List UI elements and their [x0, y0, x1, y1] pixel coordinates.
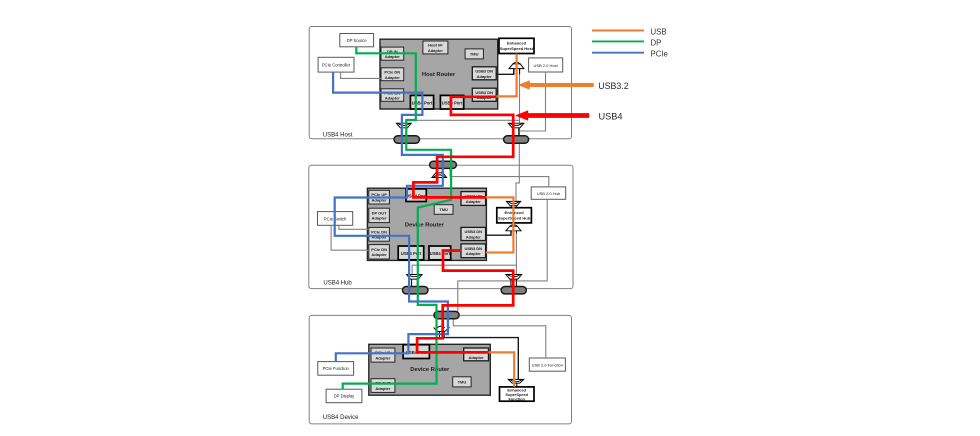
svg-text:USB3 DN: USB3 DN — [475, 90, 493, 95]
svg-text:USB3.2: USB3.2 — [598, 81, 628, 91]
wire PCIe switch stub 2 — [331, 225, 369, 250]
svg-text:Adapter: Adapter — [466, 251, 482, 256]
svg-text:DP: DP — [651, 38, 662, 47]
svg-text:USB4 Hub: USB4 Hub — [323, 280, 352, 286]
USB4 Host enclosure box — [309, 27, 571, 139]
wire device capsule to USB 2.0 function — [453, 319, 546, 358]
host router U1 — [380, 39, 498, 109]
PCIe DN adapter 2 (hub) — [369, 245, 390, 259]
connector funnel under ESS host — [509, 62, 524, 74]
USB 2.0 function box — [529, 358, 565, 371]
svg-text:USB4 Port: USB4 Port — [430, 251, 451, 256]
USB3.2 big arrow — [519, 81, 629, 91]
svg-text:DP Source: DP Source — [347, 38, 368, 43]
DP OUT adapter (device) — [371, 379, 395, 393]
PCIe function box — [318, 362, 354, 376]
svg-text:PCIe: PCIe — [651, 50, 668, 59]
USB 2.0 host box — [529, 58, 563, 72]
svg-text:Adapter: Adapter — [375, 355, 391, 360]
legend DP line — [592, 38, 661, 47]
svg-text:PCIe Function: PCIe Function — [323, 366, 350, 371]
svg-text:Device Router: Device Router — [405, 222, 445, 228]
svg-text:DP OUT: DP OUT — [372, 210, 388, 215]
connector funnel device top — [434, 326, 450, 337]
svg-text:Adapter: Adapter — [428, 48, 444, 53]
device router U2 (hub) — [367, 188, 486, 260]
wire hub capsule to USB 2.0 hub — [450, 168, 549, 187]
PCIe switch box — [318, 212, 353, 226]
USB4 port up (hub top) — [406, 189, 427, 202]
connector funnel host port 1 — [396, 123, 411, 136]
USB4 port dn2 (hub bottom) — [429, 246, 451, 260]
enhanced superspeed function box — [500, 387, 535, 402]
connector funnel above ESS hub — [506, 201, 520, 207]
USB4 port 1 (host) — [410, 95, 433, 109]
svg-text:Adapter: Adapter — [469, 355, 485, 360]
wire DP (green) DP source to hub to DP display — [343, 47, 451, 389]
wire hub USB2 branch to left port funnel — [412, 265, 516, 274]
USB3 DN adapter 2 — [472, 88, 496, 101]
enhanced superspeed hub box — [497, 208, 532, 223]
wire USB3 (orange) ESS host to USB3 DN adapter — [496, 54, 516, 97]
wire device funnel to ESS function funnel — [444, 332, 518, 380]
DP IN adapter — [381, 47, 404, 60]
svg-text:USB3 DN: USB3 DN — [475, 69, 493, 74]
legend USB line — [592, 27, 667, 36]
svg-text:Adapter: Adapter — [385, 54, 401, 59]
svg-text:Function: Function — [508, 397, 525, 402]
wire USB4 (red) host port 2 to hub — [413, 97, 513, 198]
wire USB 2.0 hub to device capsule — [458, 199, 547, 311]
cable plug hub top — [430, 161, 457, 168]
PCIe DN adapter 1 — [381, 68, 404, 81]
connector funnel hub bottom port 1 — [407, 275, 423, 287]
cable plug hub bottom port 1 — [403, 287, 429, 294]
svg-text:USB3 DN: USB3 DN — [465, 246, 483, 251]
svg-text:Adapter: Adapter — [466, 199, 482, 204]
PCIe DN adapter 1 (hub) — [369, 227, 390, 241]
DP source box — [340, 34, 374, 47]
USB 2.0 hub box — [531, 187, 566, 199]
svg-text:USB 2.0 Hub: USB 2.0 Hub — [537, 191, 561, 196]
svg-text:Enhanced: Enhanced — [507, 41, 527, 46]
PCIe controller box — [318, 57, 354, 72]
USB4 port (device) — [403, 345, 429, 359]
wire USB4 (red) hub to device — [417, 251, 513, 353]
svg-text:TMU: TMU — [439, 207, 448, 212]
USB3 UP adapter (device) — [464, 348, 489, 361]
PCIe UP adapter (device) — [371, 348, 395, 362]
connector funnel hub bottom port 2 — [506, 275, 522, 287]
wire USB3 (orange) device USB3 UP to ESS function — [489, 352, 515, 386]
USB4 port 2 (host) — [440, 95, 463, 109]
wire USB 2.0 host down-left — [520, 72, 546, 131]
wire PCIe switch stub 1 — [339, 225, 369, 229]
svg-text:PCIe Controller: PCIe Controller — [322, 62, 351, 67]
USB3 DN adapter mid (hub) — [461, 227, 486, 240]
wire USB3 (orange) hub USB3 UP to USB3 DN — [486, 197, 514, 252]
wire USB2 branch to left port funnel — [406, 120, 520, 136]
svg-text:Adapter: Adapter — [385, 96, 401, 101]
svg-text:Adapter: Adapter — [372, 216, 388, 221]
svg-text:Adapter: Adapter — [477, 74, 493, 79]
USB4 big arrow — [516, 111, 623, 122]
wire USB3 DN adapter to ESS hub funnel — [486, 231, 511, 235]
wire USB3 DN adapter to ESS host funnel — [496, 69, 514, 75]
svg-text:TMU: TMU — [458, 380, 467, 385]
PCIe DN adapter 2 — [381, 89, 404, 102]
svg-text:USB4 Port: USB4 Port — [442, 101, 463, 106]
connector funnel above ESS function — [508, 379, 523, 387]
USB3 UP adapter (hub) — [461, 192, 486, 206]
svg-text:Adapter: Adapter — [372, 252, 388, 257]
svg-text:USB4 Host: USB4 Host — [323, 132, 353, 138]
wire hub ESS funnel foot to right port funnel — [515, 233, 517, 274]
PCIe UP adapter (hub) — [369, 190, 390, 204]
svg-text:USB 2.0 Function: USB 2.0 Function — [532, 363, 563, 368]
DP display box — [326, 389, 362, 403]
svg-text:DP Display: DP Display — [334, 394, 355, 399]
cable plug host port 1 — [394, 136, 420, 143]
DP OUT adapter (hub) — [369, 208, 390, 222]
connector funnel host port 2 — [508, 123, 524, 136]
connector funnel hub top (feet up) — [432, 168, 447, 177]
svg-text:Adapter: Adapter — [385, 75, 401, 80]
svg-text:USB 2.0 Host: USB 2.0 Host — [533, 63, 558, 68]
svg-text:USB3 DN: USB3 DN — [465, 229, 483, 234]
svg-text:PCIe DN: PCIe DN — [371, 229, 387, 234]
USB4 Hub enclosure box — [309, 165, 573, 288]
svg-text:PCIe DN: PCIe DN — [371, 247, 387, 252]
TMU device — [453, 377, 471, 387]
svg-text:Host Router: Host Router — [422, 72, 456, 78]
wire USB2 vertical ESS-host funnel to right capsule — [519, 69, 521, 136]
cable plug host port 2 — [504, 136, 529, 143]
svg-text:SuperSpeed Host: SuperSpeed Host — [500, 46, 534, 51]
wire PCIe (blue) PCIe controller to hub to PCIe function — [333, 72, 448, 362]
svg-text:PCIe DN: PCIe DN — [384, 70, 400, 75]
host I/F adapter — [423, 41, 448, 54]
wire PCIe controller to PCIe DN adapter — [341, 72, 381, 78]
USB3 DN adapter bottom (hub) — [461, 244, 486, 258]
wire host right capsule to hub ESS funnel — [516, 143, 519, 201]
device router U3 — [369, 344, 491, 395]
svg-text:Device Router: Device Router — [410, 367, 450, 373]
svg-text:TMU: TMU — [470, 52, 479, 57]
legend PCIe line — [592, 50, 668, 59]
enhanced superspeed host box — [499, 38, 534, 53]
USB4 port dn1 (hub bottom) — [398, 246, 424, 260]
svg-text:USB4 Device: USB4 Device — [323, 415, 359, 421]
TMU hub — [434, 205, 453, 215]
svg-text:USB4: USB4 — [599, 111, 623, 121]
svg-text:Adapter: Adapter — [375, 386, 391, 391]
svg-text:Host I/F: Host I/F — [428, 43, 443, 48]
connector funnel below ESS hub — [506, 225, 521, 234]
cable plug device top — [434, 311, 459, 318]
cable plug hub bottom port 2 — [501, 287, 526, 294]
svg-text:Adapter: Adapter — [466, 234, 482, 239]
TMU host — [465, 49, 483, 59]
USB3 DN adapter 1 — [472, 67, 496, 80]
svg-text:USB: USB — [651, 27, 667, 36]
USB4 Device enclosure box — [309, 315, 571, 424]
